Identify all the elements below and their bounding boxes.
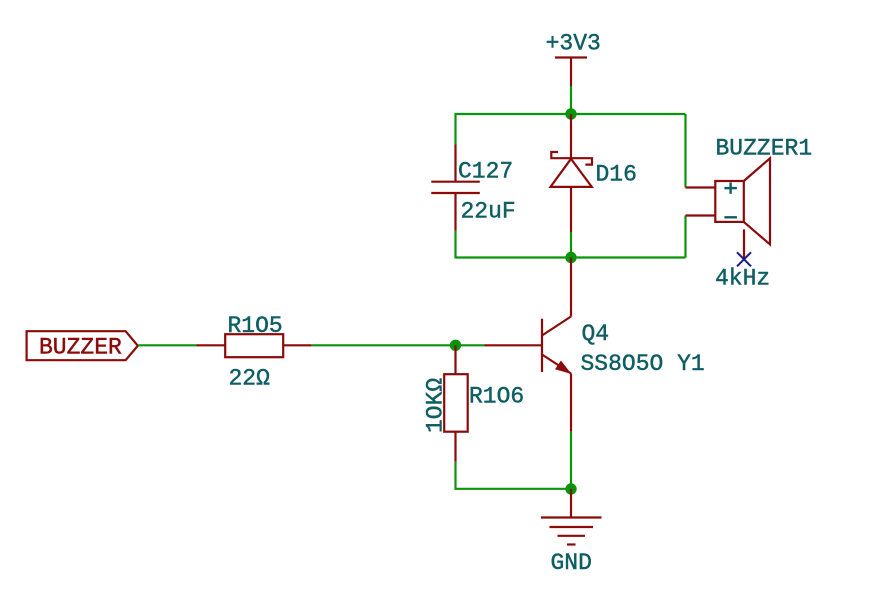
wire bottom horizontal	[456, 256, 686, 258]
svg-text:22Ω: 22Ω	[229, 365, 271, 391]
junction ground node	[565, 483, 576, 494]
wire top horizontal	[456, 113, 686, 115]
wire +3V3 to top node	[570, 86, 572, 114]
svg-text:BUZZER: BUZZER	[39, 334, 122, 360]
power +3V3 symbol	[555, 58, 587, 87]
ground symbol	[541, 489, 602, 545]
transistor Q4	[485, 258, 572, 432]
svg-text:Q4: Q4	[582, 321, 610, 347]
wire R106 to ground rail	[456, 462, 572, 489]
svg-text:C127: C127	[458, 158, 513, 184]
svg-text:R1O5: R1O5	[228, 313, 283, 339]
wire diode to bottom node	[570, 232, 572, 258]
resistor R105	[197, 334, 312, 357]
svg-text:D16: D16	[596, 162, 637, 188]
global label BUZZER flag	[27, 331, 138, 360]
svg-text:22uF: 22uF	[461, 198, 516, 224]
svg-text:GND: GND	[551, 550, 592, 576]
buzzer BUZZER1	[686, 158, 771, 259]
no-connect X	[737, 252, 751, 266]
svg-text:1OKΩ: 1OKΩ	[423, 378, 449, 433]
junction top node	[565, 108, 576, 119]
wire buzzer bottom	[684, 216, 686, 258]
wire emitter to ground node	[570, 432, 572, 489]
capacitor C127	[431, 145, 480, 231]
wire cap top	[454, 113, 456, 145]
wire cap bottom	[454, 231, 456, 259]
svg-text:SS8O5O Y1: SS8O5O Y1	[581, 351, 705, 377]
svg-text:+3V3: +3V3	[546, 31, 601, 57]
diode D16 zener	[551, 114, 593, 232]
resistor R106	[444, 345, 468, 461]
svg-text:4kHz: 4kHz	[715, 265, 770, 291]
wire R105 to base node	[312, 344, 485, 346]
svg-text:BUZZER1: BUZZER1	[716, 135, 813, 161]
wire buzzer top	[684, 114, 686, 188]
wire label to R105	[138, 344, 196, 346]
junction base node	[450, 340, 461, 351]
junction bottom node	[565, 252, 576, 263]
svg-text:R1O6: R1O6	[469, 384, 524, 410]
